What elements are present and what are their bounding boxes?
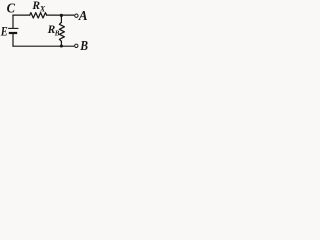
wire left vertical upper (corner C down to battery) [12,15,14,28]
wire top-left horizontal (C corner to RX) [13,14,30,16]
resistor RB vertical zigzag [59,22,64,41]
svg-text:B: B [54,29,60,37]
wire bottom horizontal [13,45,74,47]
svg-text:B: B [79,38,88,53]
battery E short thick plate [10,32,16,34]
wire RX to terminal A [47,14,75,16]
svg-text:C: C [7,1,16,16]
svg-text:E: E [0,24,8,39]
battery E long thin plate [9,27,18,29]
svg-text:X: X [39,4,46,13]
terminal A open circle [75,14,78,17]
resistor RX zigzag [30,13,47,18]
wire left vertical lower (battery to bottom corner) [12,34,14,46]
svg-text:A: A [78,9,88,24]
junction node bottom [60,44,63,47]
terminal B open circle [75,44,78,47]
wire junction down to RB [60,15,62,22]
junction node top [60,14,63,17]
wire RB to bottom junction [60,41,62,46]
